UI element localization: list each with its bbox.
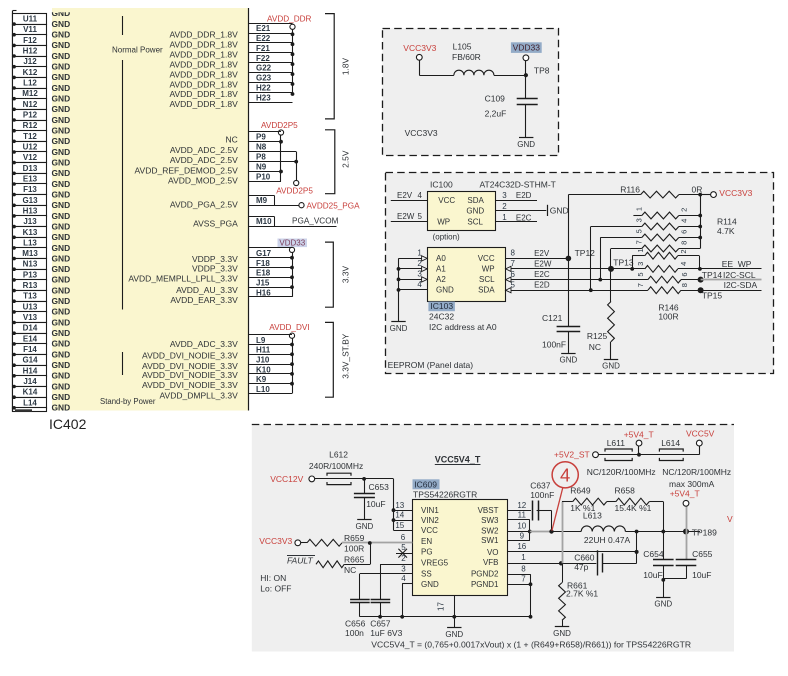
svg-text:4: 4 [401, 574, 406, 583]
ground [561, 353, 575, 355]
wire pin7 PGND1 stub [508, 584, 531, 586]
svg-text:AVDD2P5: AVDD2P5 [261, 121, 298, 130]
pin T13 [13, 291, 47, 302]
svg-text:16: 16 [517, 542, 526, 551]
svg-text:VBST: VBST [478, 506, 499, 515]
svg-text:J10: J10 [256, 356, 270, 365]
svg-text:H22: H22 [256, 84, 271, 93]
svg-text:IC103: IC103 [430, 301, 453, 311]
svg-text:V12: V12 [23, 153, 38, 162]
wire AVDD_DDR bus [292, 30, 294, 94]
ferrite bead L611 (NC) [598, 454, 639, 456]
svg-text:VIN2: VIN2 [421, 516, 439, 525]
wire VDD33 bus [292, 253, 294, 297]
wire output to C654 [663, 532, 665, 560]
wire C655 to ground join [686, 566, 688, 579]
ferrite bead L612 [315, 478, 364, 480]
bracket 3.3V [325, 242, 333, 307]
svg-text:I2C-SCL: I2C-SCL [723, 270, 756, 280]
svg-text:10uF: 10uF [366, 499, 385, 509]
pin V13 [13, 312, 47, 323]
wire pin2 VREG5 stub [380, 564, 413, 566]
svg-text:U12: U12 [23, 143, 38, 152]
svg-text:GND: GND [654, 600, 672, 609]
svg-text:SS: SS [421, 569, 432, 578]
svg-text:GND: GND [602, 362, 620, 371]
svg-text:9: 9 [520, 532, 525, 541]
svg-text:U11: U11 [23, 15, 38, 24]
node +5V2_ST terminal [593, 452, 599, 458]
svg-text:8: 8 [680, 241, 689, 245]
wire left GND bus [12, 11, 14, 412]
svg-text:M10: M10 [256, 217, 272, 226]
svg-text:GND: GND [52, 403, 71, 413]
pin V11 [13, 25, 47, 36]
svg-text:1.8V: 1.8V [341, 57, 351, 75]
wire pin5 PG stub (not connected) [396, 553, 413, 555]
svg-text:100nF: 100nF [530, 490, 554, 500]
svg-text:GND: GND [52, 371, 71, 381]
svg-text:GND: GND [52, 307, 71, 317]
ferrite bead L614 (NC) [639, 454, 699, 456]
pins P9-P10 box rows [249, 131, 282, 133]
svg-text:10uF: 10uF [643, 570, 662, 580]
svg-text:3: 3 [401, 564, 406, 573]
svg-text:G13: G13 [22, 196, 38, 205]
net label VDD33 highlighted [278, 239, 308, 248]
wire R114 d to E2W / R125 [611, 248, 642, 250]
svg-text:GND: GND [52, 179, 71, 189]
svg-text:VO: VO [487, 548, 499, 557]
wire IC103 address bus to ground [398, 258, 400, 321]
svg-text:+5V4_T: +5V4_T [670, 489, 700, 499]
svg-text:C655: C655 [692, 549, 713, 559]
resistor R116 [641, 191, 679, 198]
testpoint TP13 [608, 266, 614, 272]
svg-text:GND: GND [52, 115, 71, 125]
svg-text:P12: P12 [23, 111, 38, 120]
svg-text:R125: R125 [587, 331, 608, 341]
svg-text:8: 8 [511, 249, 516, 258]
pin E14 [13, 334, 47, 345]
capacitor C660 [597, 550, 599, 575]
junction dots on GND bus [12, 22, 16, 26]
svg-text:GND: GND [52, 339, 71, 349]
svg-text:NC/120R/100MHz: NC/120R/100MHz [662, 467, 731, 477]
node AVDD_DDR terminal [290, 24, 295, 29]
wire to VCC3V3 terminal [700, 194, 710, 196]
svg-text:VCC: VCC [478, 254, 495, 263]
svg-text:C660: C660 [574, 553, 595, 563]
resistor R146 a (pins 1-2) [632, 255, 645, 257]
pin P12 [13, 110, 47, 121]
wire IC103 pin8 E2V rail [505, 258, 568, 260]
svg-text:H23: H23 [256, 94, 271, 103]
svg-text:2: 2 [502, 202, 507, 211]
pin J14 [13, 376, 47, 387]
svg-text:5: 5 [636, 272, 645, 276]
svg-text:E14: E14 [23, 334, 38, 343]
wire pin8 PGND2 stub [508, 574, 531, 576]
svg-text:E2V: E2V [534, 249, 550, 258]
pins E21-H23 box rows [249, 23, 293, 25]
pin G14 [13, 355, 47, 366]
svg-text:R659: R659 [344, 533, 365, 543]
svg-text:GND: GND [52, 328, 71, 338]
svg-text:14: 14 [395, 511, 404, 520]
svg-text:J12: J12 [23, 57, 37, 66]
svg-text:5: 5 [635, 229, 644, 233]
pin F13 [13, 184, 47, 195]
svg-text:240R/100MHz: 240R/100MHz [309, 461, 363, 471]
svg-text:P9: P9 [256, 133, 266, 142]
svg-text:GND: GND [52, 168, 71, 178]
svg-text:AVDD_AU_3.3V: AVDD_AU_3.3V [176, 285, 238, 295]
svg-text:(option): (option) [433, 232, 460, 241]
wire pin11 SW3 stub [508, 519, 530, 521]
svg-text:VDDP_3.3V: VDDP_3.3V [192, 263, 238, 273]
ground [604, 359, 618, 361]
svg-text:SW1: SW1 [481, 536, 499, 545]
junction dot C654/C655 ground [661, 578, 665, 582]
svg-text:L614: L614 [661, 438, 680, 448]
svg-text:J15: J15 [256, 279, 270, 288]
wire L105 to TP8 [494, 75, 526, 77]
wire R125 to ground [610, 342, 612, 360]
svg-text:GND: GND [52, 360, 71, 370]
svg-text:E2D: E2D [516, 191, 532, 200]
buck regulator IC609 [413, 500, 508, 596]
svg-text:AVDD_PGA_2.5V: AVDD_PGA_2.5V [170, 199, 238, 209]
wire M10 PGA_VCOM [249, 226, 337, 228]
wire VDD33 down [525, 61, 527, 99]
svg-text:GND: GND [52, 136, 71, 146]
svg-text:H12: H12 [23, 47, 38, 56]
pin H13 [13, 206, 47, 217]
svg-text:IC402: IC402 [49, 416, 87, 432]
wire pin4 GND stub [402, 583, 413, 585]
svg-text:GND: GND [52, 40, 71, 50]
svg-text:VCC5V4_T = (0,765+0.0017xVout): VCC5V4_T = (0,765+0.0017xVout) x (1 + (R… [371, 640, 691, 650]
svg-text:M12: M12 [22, 89, 38, 98]
inductor L105 [454, 70, 494, 75]
svg-text:6: 6 [680, 230, 689, 234]
pin M14 (cut off) [13, 408, 47, 412]
svg-text:AVDD25_PGA: AVDD25_PGA [307, 201, 361, 210]
EEPROM box (Panel data) [386, 173, 774, 374]
svg-text:Normal Power: Normal Power [112, 45, 163, 54]
wire SW node (highlighted) [530, 531, 552, 533]
svg-text:15: 15 [395, 521, 404, 530]
junction dots address bus [397, 267, 401, 271]
node VCC3V3 terminal [711, 192, 717, 198]
pin R12 [13, 121, 47, 132]
svg-text:GND: GND [52, 200, 71, 210]
wire VO to output node [636, 532, 638, 552]
wire R658 to output [649, 501, 663, 503]
svg-text:PG: PG [421, 548, 433, 557]
wire pin16 VO [508, 551, 637, 553]
junction dot on E2C [598, 278, 602, 282]
svg-text:NC: NC [344, 565, 356, 575]
junction dots R146 a [630, 267, 634, 271]
svg-text:VCC5V: VCC5V [686, 429, 715, 439]
svg-text:N8: N8 [256, 143, 267, 152]
svg-text:NC: NC [226, 135, 238, 145]
svg-text:3.3V: 3.3V [341, 265, 351, 283]
svg-text:2: 2 [401, 554, 406, 563]
node VDD33 terminal [523, 55, 529, 61]
svg-text:+5V2_ST: +5V2_ST [554, 450, 590, 460]
capacitor C653 [364, 479, 366, 494]
svg-text:AVDD_EAR_3.3V: AVDD_EAR_3.3V [170, 295, 238, 305]
junction dot L612 out [362, 477, 366, 481]
svg-text:5: 5 [418, 212, 423, 221]
wire IC103 pin6 E2C rail [505, 279, 648, 281]
label IC609 highlighted [413, 479, 440, 489]
svg-text:R114: R114 [717, 217, 737, 227]
svg-text:SCL: SCL [467, 217, 483, 226]
wire VIN bus [364, 478, 393, 480]
svg-text:E21: E21 [256, 24, 271, 33]
wire C653 to ground [364, 498, 366, 520]
wire IC103 pin1 A0 [399, 258, 428, 260]
svg-text:I2C-SDA: I2C-SDA [724, 280, 758, 290]
svg-text:GND: GND [52, 62, 71, 72]
svg-text:100R: 100R [344, 543, 364, 553]
wire pin10 SW2 stub [508, 531, 530, 533]
svg-text:7: 7 [635, 240, 644, 244]
wire pin15 stub [394, 530, 414, 532]
ground [357, 519, 371, 521]
svg-text:AVDD_DDR_1.8V: AVDD_DDR_1.8V [169, 99, 238, 109]
svg-text:8: 8 [521, 565, 526, 574]
wire C654 to ground [663, 566, 665, 598]
svg-text:GND: GND [52, 232, 71, 242]
svg-text:G23: G23 [256, 74, 272, 83]
node +5V4_T terminal lower [683, 500, 689, 506]
svg-text:A0: A0 [436, 254, 446, 263]
junction dots ground bus [378, 615, 382, 619]
resistor R114 b (pins 3-4) [642, 223, 679, 230]
testpoint TP8 [524, 73, 528, 77]
svg-text:R12: R12 [23, 121, 38, 130]
svg-text:VREG5: VREG5 [421, 558, 449, 567]
svg-text:2.7K %1: 2.7K %1 [566, 589, 598, 599]
bracket 3.3V_ST.BY [325, 322, 333, 397]
svg-text:7: 7 [636, 283, 645, 287]
svg-text:I2C address at A0: I2C address at A0 [429, 322, 497, 332]
node VCC3V3 terminal [416, 54, 422, 60]
svg-text:47p: 47p [574, 562, 588, 572]
svg-text:TP14: TP14 [702, 270, 723, 280]
svg-text:3: 3 [636, 262, 645, 266]
wire IC103 pin7 E2W rail [505, 268, 644, 270]
svg-text:IC100: IC100 [430, 180, 453, 190]
svg-text:13: 13 [395, 501, 404, 510]
svg-text:4.7K: 4.7K [717, 226, 735, 236]
svg-text:AVDD_DDR_1.8V: AVDD_DDR_1.8V [169, 69, 238, 79]
svg-text:GND: GND [52, 94, 71, 104]
wire M9 to AVDD25_PGA [249, 205, 300, 207]
svg-text:TPS54226RGTR: TPS54226RGTR [413, 489, 477, 499]
node +5V4_T terminal upper [636, 440, 642, 446]
svg-text:AVDD_ADC_3.3V: AVDD_ADC_3.3V [170, 339, 238, 349]
svg-text:VCC: VCC [421, 526, 438, 535]
svg-text:M13: M13 [22, 249, 38, 258]
wire IC103 pin3 A2 [399, 279, 428, 281]
svg-text:TP15: TP15 [702, 291, 723, 301]
svg-text:N13: N13 [23, 260, 38, 269]
ground [656, 597, 670, 599]
svg-text:Stand-by Power: Stand-by Power [100, 397, 156, 406]
junction dot output/VO [635, 530, 639, 534]
testpoint TP14 [698, 277, 704, 283]
wire VCC3V3 to L105 [419, 60, 421, 75]
svg-text:VCC3V3: VCC3V3 [719, 188, 752, 198]
resistor R114 c (pins 5-6) [642, 234, 679, 241]
bracket 1.8V [325, 14, 334, 119]
resistor R649 [573, 498, 607, 505]
svg-text:1: 1 [636, 248, 645, 252]
svg-text:PGND2: PGND2 [471, 570, 499, 579]
svg-text:GND: GND [52, 83, 71, 93]
wire IC100 pin5 E2W [391, 221, 428, 223]
resistor R125 (NC) [608, 302, 615, 342]
svg-text:GND: GND [52, 221, 71, 231]
svg-text:GND: GND [52, 349, 71, 359]
svg-text:AVDD_ADC_2.5V: AVDD_ADC_2.5V [170, 155, 238, 165]
svg-text:VFB: VFB [483, 558, 499, 567]
resistor R114 a (pins 1-2) [633, 215, 641, 217]
junction dots VDD33 bus [290, 256, 294, 260]
svg-text:F13: F13 [23, 185, 37, 194]
arrowheads into IC103 serial pins [506, 266, 511, 271]
svg-text:C657: C657 [370, 619, 391, 629]
filter box (VDD33 supply) [383, 29, 559, 156]
junction dot PGND [529, 582, 533, 586]
svg-text:1: 1 [521, 553, 526, 562]
svg-text:AVSS_PGA: AVSS_PGA [193, 218, 238, 228]
pin H14 [13, 366, 47, 377]
svg-text:GND: GND [52, 296, 71, 306]
wire AVDD2P5 bus B [296, 152, 298, 181]
wire TP189 to +5V4_T terminal (highlighted) [686, 506, 688, 531]
svg-text:2: 2 [679, 249, 688, 253]
wire pin12 VBST stub [508, 510, 531, 512]
svg-text:2.5V: 2.5V [341, 150, 351, 168]
svg-text:GND: GND [52, 19, 71, 29]
junction dot on E2D [589, 288, 593, 292]
testpoint TP12 [566, 256, 572, 262]
svg-text:VCC: VCC [438, 196, 455, 205]
svg-text:H14: H14 [23, 366, 38, 375]
pin U12 [13, 142, 47, 153]
pin D14 [13, 323, 47, 334]
svg-text:SW3: SW3 [481, 516, 499, 525]
junction dots bus A [279, 140, 283, 144]
svg-text:4: 4 [418, 191, 423, 200]
pin E13 [13, 174, 47, 185]
ground [519, 137, 533, 139]
testpoint TP189 [683, 529, 689, 535]
DC-DC converter box [252, 424, 734, 651]
wire AVDD2P5 bus A [280, 135, 282, 181]
svg-text:GND: GND [356, 522, 374, 531]
svg-text:1: 1 [502, 213, 507, 222]
svg-text:H16: H16 [256, 288, 271, 297]
svg-text:FAULT: FAULT [287, 556, 313, 566]
junction dot VFB [559, 561, 563, 565]
svg-text:L611: L611 [607, 438, 626, 448]
ground [555, 626, 569, 628]
svg-text:22UH 0.47A: 22UH 0.47A [584, 535, 631, 545]
node AVDD2P5 terminal upper [278, 130, 283, 135]
wire pin4 down [402, 583, 404, 616]
svg-text:AVDD_DMPLL_3.3V: AVDD_DMPLL_3.3V [160, 390, 239, 400]
svg-text:GND: GND [466, 207, 484, 216]
svg-text:G17: G17 [256, 249, 272, 258]
svg-text:WP: WP [437, 217, 450, 226]
wire C637 to SW node [537, 510, 552, 512]
label IC103 highlighted [428, 302, 455, 312]
svg-text:100nF: 100nF [542, 340, 566, 350]
ground [447, 627, 461, 629]
svg-text:AVDD_DVI: AVDD_DVI [269, 323, 309, 332]
pin L13 [13, 238, 47, 249]
svg-text:GND: GND [52, 264, 71, 274]
pin U11 [13, 14, 47, 25]
svg-text:H11: H11 [256, 346, 271, 355]
svg-text:GND: GND [550, 205, 569, 215]
wire VFB to C660 [561, 563, 596, 565]
wire R114 c to E2C [600, 237, 642, 239]
svg-text:J13: J13 [23, 217, 37, 226]
svg-text:NC/120R/100MHz: NC/120R/100MHz [587, 467, 656, 477]
svg-text:WP: WP [482, 265, 495, 274]
capacitor C656 [359, 574, 361, 600]
capacitor C654 [653, 559, 674, 561]
svg-text:GND: GND [553, 629, 571, 638]
svg-text:GND: GND [52, 275, 71, 285]
divider feed (highlighted) [562, 502, 564, 564]
no-connect cross on PG [398, 549, 407, 558]
wire C660 to VO node [602, 563, 637, 565]
svg-text:4: 4 [679, 262, 688, 266]
inductor L613 [581, 526, 625, 532]
wire R661 to ground [562, 620, 564, 627]
svg-text:L13: L13 [23, 238, 37, 247]
resistor R661 [559, 583, 566, 621]
pin N12 [13, 99, 47, 110]
svg-text:P10: P10 [256, 172, 271, 181]
svg-text:T13: T13 [23, 292, 37, 301]
arrowheads into IC103 address pins [422, 256, 428, 261]
capacitor C109 [517, 98, 538, 100]
svg-text:R13: R13 [23, 281, 38, 290]
svg-text:K12: K12 [23, 68, 38, 77]
resistor R146 d (pins 7-8) inline E2D [648, 287, 681, 294]
wire pin3 SS stub [360, 573, 413, 575]
capacitor C655 [676, 559, 697, 561]
junction dot SW/C637 [549, 529, 553, 533]
svg-text:1: 1 [635, 207, 644, 211]
junction dots R114 common [698, 214, 702, 218]
resistor R659 [307, 539, 342, 546]
pin M9 [249, 195, 275, 197]
svg-text:GND: GND [52, 253, 71, 263]
node AVDD25_PGA terminal [299, 203, 304, 208]
